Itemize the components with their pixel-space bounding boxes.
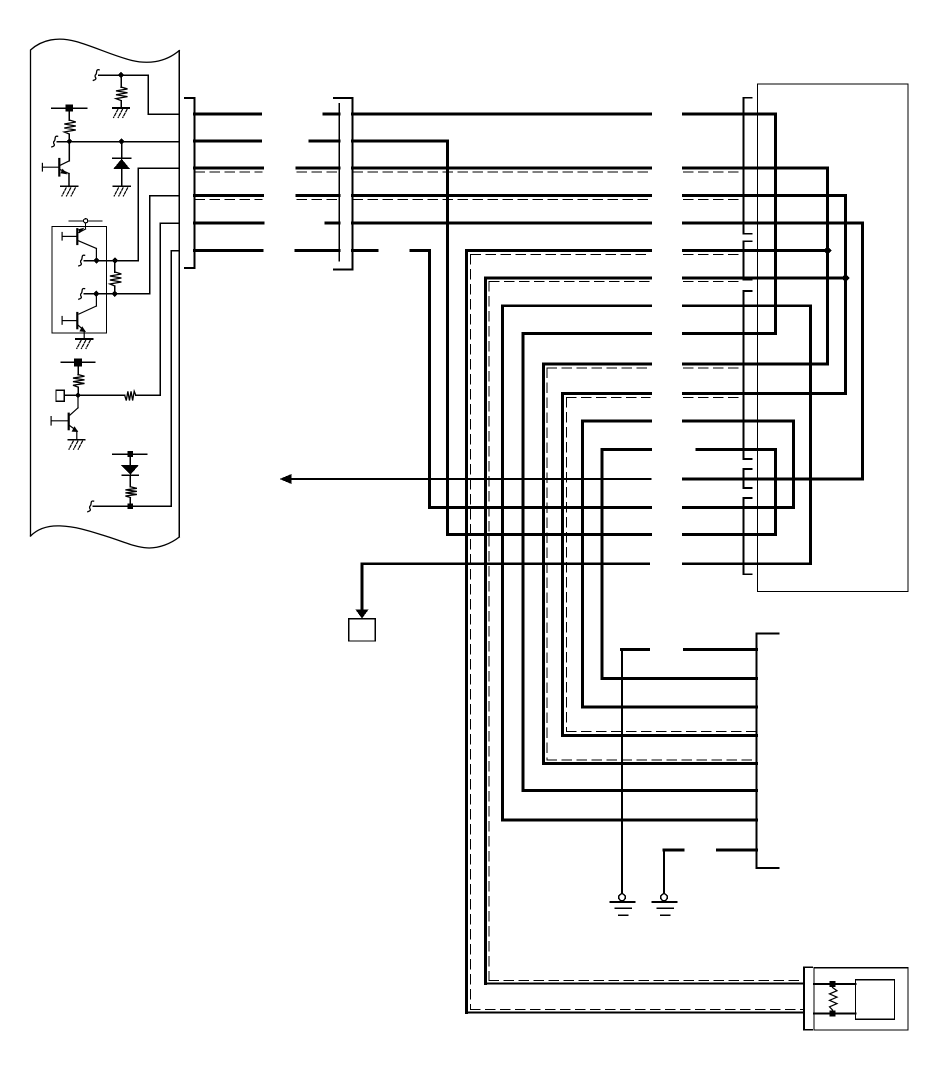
wire row18 (362, 564, 811, 608)
pin squiggle S2 (52, 136, 58, 147)
wire loop1 (467, 251, 828, 1013)
antenna box (349, 619, 375, 641)
wire node C (84, 260, 138, 262)
junction node D2 (112, 291, 118, 297)
ground D1 (113, 186, 130, 196)
wire loop5 (544, 364, 828, 764)
wire row1 (195, 114, 776, 334)
wire row2 (195, 141, 448, 535)
wire loop7 (583, 421, 794, 707)
ground Q1 (61, 186, 78, 196)
junction radio A (823, 246, 831, 254)
speaker wire bottom (814, 1012, 856, 1014)
wire row6 (195, 251, 430, 508)
resistor R1 (116, 75, 128, 108)
amplifier connector J4 (757, 634, 779, 869)
pin squiggle S3 (79, 255, 85, 266)
wire loop8 (602, 450, 776, 679)
wire node B (57, 141, 179, 143)
arrowhead left (280, 474, 292, 484)
connector J2 male (334, 98, 353, 270)
wire row17 (448, 533, 776, 536)
terminal pad T1 (56, 390, 64, 401)
wire loop3 (503, 306, 811, 820)
diode D1 (113, 142, 131, 187)
ECU module U1 torn outline (31, 39, 180, 536)
junction node C2 (112, 257, 118, 263)
fusible-link FL2 (61, 358, 94, 366)
connector J3 segment 5 (744, 498, 752, 574)
wire loop5 tracer (547, 368, 757, 760)
ground stake G1 (611, 894, 635, 915)
speaker connector J5 (804, 967, 812, 1029)
fusible-link FL1 (52, 104, 87, 111)
connector J3 segment 3 (744, 291, 752, 459)
wire loop2 tracer (489, 282, 803, 981)
speaker junction bottom (830, 1011, 836, 1017)
resistor R2 (64, 108, 76, 142)
wire row5 (195, 223, 863, 479)
ground stake G2 (653, 894, 677, 915)
junction node A (118, 72, 124, 78)
junction radio B (841, 274, 849, 282)
wire node E (64, 394, 124, 396)
wire row4 tracer (195, 199, 742, 201)
resistor R3 (110, 261, 122, 294)
wire row3 tracer (195, 171, 742, 173)
wire row4 (195, 196, 846, 394)
speaker wire top (814, 983, 856, 985)
junction node B1 (66, 138, 72, 144)
wire pin6 (171, 251, 179, 507)
resistor R6 (125, 475, 136, 506)
junction node F1 (128, 504, 134, 510)
resistor R4 (73, 362, 85, 395)
ground Q4 (68, 440, 85, 450)
wire pin5 (136, 223, 180, 395)
ground Q3 (76, 339, 93, 349)
wire amp row1 (622, 650, 757, 894)
transistor Q2 (62, 228, 96, 261)
wire arrow row (290, 478, 863, 480)
connector J2 female (338, 104, 340, 261)
pin squiggle S5 (88, 501, 94, 512)
connector J3 segment 2 (744, 241, 752, 279)
connector J3 segment 1 (744, 98, 752, 234)
speaker box (814, 968, 908, 1030)
diode D2 (121, 454, 139, 475)
wire node D (84, 293, 150, 295)
wire row3 (195, 168, 828, 364)
wire pin4 (150, 196, 180, 294)
wire loop4 (523, 334, 776, 791)
junction node C1 (93, 257, 99, 263)
ground R1 (113, 108, 130, 118)
connector J3 segment 4 (744, 469, 752, 488)
wire loop6 (563, 394, 846, 736)
wire amp row8 (664, 850, 757, 894)
junction node E1 (75, 392, 81, 398)
speaker junction top (830, 981, 836, 987)
transistor Q1 (42, 142, 69, 187)
arrowhead down (355, 610, 368, 619)
pin squiggle S1 (93, 70, 99, 81)
wire node A top (99, 75, 180, 114)
resistor R5 (125, 391, 136, 400)
wire pin3 (138, 168, 179, 261)
wire loop1 tracer (471, 255, 804, 1010)
junction node D1 (93, 291, 99, 297)
rail stub node F (113, 451, 147, 457)
wire row16 (430, 506, 794, 509)
transistor Q3 (62, 294, 96, 339)
radio unit box (758, 84, 909, 592)
wire node F (93, 505, 171, 507)
connector J1 (185, 98, 195, 268)
contact pin P1 (69, 219, 102, 229)
speaker magnet box (856, 980, 895, 1019)
transistor-pair box (52, 227, 106, 334)
pin squiggle S4 (79, 288, 85, 299)
wire loop2 (486, 278, 846, 984)
speaker coil R7 (830, 988, 838, 1011)
wire loop6 tracer (567, 398, 757, 732)
transistor Q4 (51, 395, 78, 439)
junction node B2 (118, 138, 124, 144)
